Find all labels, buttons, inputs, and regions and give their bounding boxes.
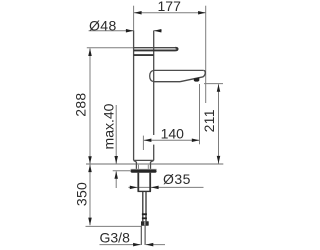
svg-text:Ø35: Ø35 xyxy=(163,171,191,187)
svg-text:140: 140 xyxy=(161,125,185,141)
svg-text:Ø48: Ø48 xyxy=(89,17,117,33)
svg-text:max.40: max.40 xyxy=(101,103,117,149)
svg-text:G3/8: G3/8 xyxy=(100,229,131,245)
svg-text:211: 211 xyxy=(201,109,217,132)
svg-text:350: 350 xyxy=(74,182,90,206)
svg-text:288: 288 xyxy=(73,92,89,116)
svg-text:177: 177 xyxy=(158,0,182,14)
